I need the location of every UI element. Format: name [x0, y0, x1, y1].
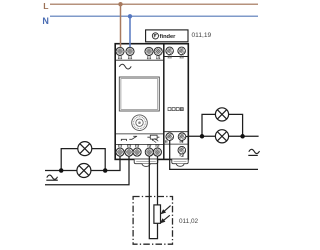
svg-text:N: N: [42, 16, 49, 26]
svg-text:L: L: [43, 1, 48, 11]
svg-text:011,02: 011,02: [179, 218, 199, 225]
svg-text:finder: finder: [160, 34, 177, 40]
svg-text:011,19: 011,19: [192, 32, 212, 39]
